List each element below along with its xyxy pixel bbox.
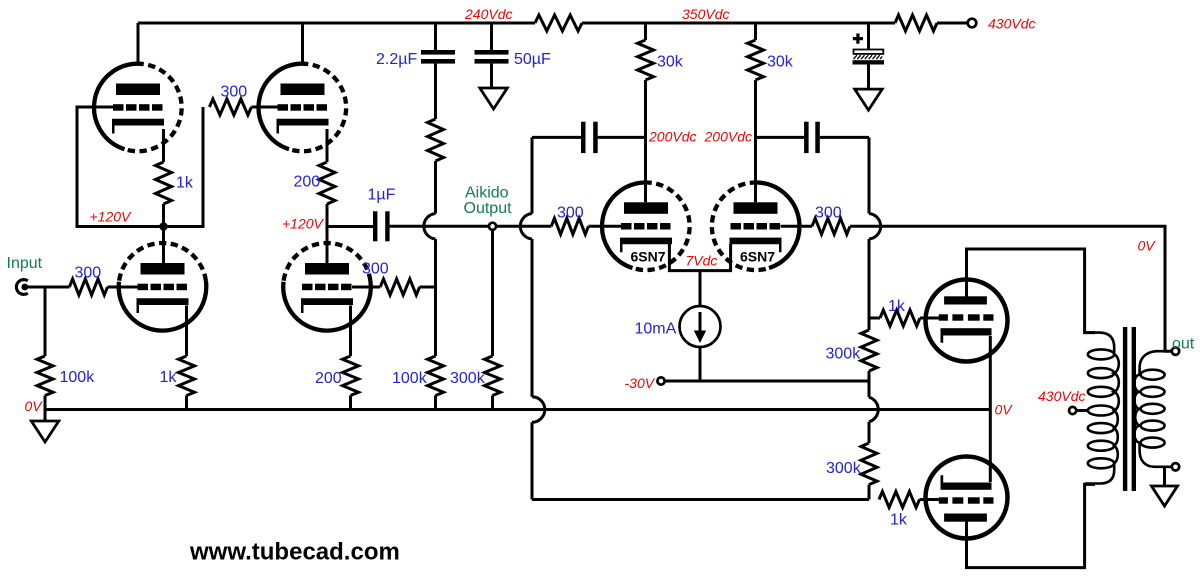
resistor 100k (input) [44, 287, 47, 356]
resistor 1k (lower output grid) [879, 492, 920, 508]
resistor 200 (V2b cathode) [349, 306, 352, 357]
svg-text:1µF: 1µF [368, 187, 396, 204]
vertical wire (left coupling cap) with hops [531, 137, 534, 213]
vertical wire (right coupling cap) with hops [868, 137, 871, 213]
terminal -30V [657, 377, 664, 384]
svg-text:out: out [1172, 336, 1195, 353]
resistor 300 (6SN7 left grid) [551, 218, 588, 234]
triode V2b (2nd bottom) [326, 227, 329, 264]
svg-text:240Vdc: 240Vdc [464, 6, 512, 22]
svg-text:2.2µF: 2.2µF [376, 51, 417, 68]
output triode (upper) [926, 280, 1008, 362]
svg-text:430Vdc: 430Vdc [1038, 388, 1085, 404]
svg-text:300k: 300k [450, 370, 486, 387]
resistor 30k (left) [644, 23, 647, 40]
svg-text:6SN7: 6SN7 [740, 249, 775, 265]
resistor 300k (upper) [868, 318, 871, 330]
capacitor (left 6SN7 plate coupling) [532, 136, 581, 139]
resistor 300 (V1a/V2a grid) [209, 99, 251, 115]
wire 0V feedback line to out [850, 226, 1172, 351]
transformer primary [1085, 333, 1119, 484]
wire V1a grid feedback to +120V node [77, 107, 203, 227]
capacitor 2.2uF [434, 23, 437, 50]
wire -30V line [665, 380, 869, 383]
ground (50uF) [490, 64, 493, 88]
node Aikido Output [489, 223, 496, 230]
svg-text:200: 200 [315, 370, 342, 387]
ground bus 0V [45, 408, 990, 411]
svg-text:Aikido: Aikido [465, 185, 509, 202]
svg-text:6SN7: 6SN7 [631, 249, 666, 265]
svg-text:300: 300 [362, 261, 389, 278]
long wire to lower output grid [532, 498, 869, 501]
svg-text:0V: 0V [1138, 238, 1157, 254]
svg-text:300: 300 [75, 265, 102, 282]
svg-text:50µF: 50µF [514, 51, 551, 68]
ground (input) [44, 410, 47, 422]
svg-text:www.tubecad.com: www.tubecad.com [189, 539, 400, 566]
terminal secondary bottom [1172, 463, 1179, 470]
svg-text:1k: 1k [176, 175, 194, 192]
6SN7 cathodes U wire, node 7Vdc [669, 244, 730, 271]
svg-text:10mA: 10mA [635, 321, 677, 338]
triode U2 6SN7 (right) [757, 183, 799, 269]
svg-text:Output: Output [464, 200, 513, 217]
triode V1a (top-left) [137, 23, 140, 64]
svg-text:30k: 30k [767, 54, 794, 71]
transformer core [1123, 327, 1127, 491]
wire 1uF to Aikido output node [390, 225, 489, 228]
svg-text:+120V: +120V [282, 216, 325, 232]
svg-text:200: 200 [294, 174, 321, 191]
triode V2a (2nd top) [301, 23, 304, 64]
resistor 300k (lower) [868, 422, 871, 443]
resistor 300 (input grid) [69, 279, 107, 295]
top supply rail 240Vdc/350Vdc [138, 22, 968, 25]
svg-text:300: 300 [557, 205, 584, 222]
current source 10mA [680, 306, 721, 347]
svg-text:1k: 1k [888, 298, 906, 315]
svg-text:300: 300 [221, 84, 248, 101]
resistor 1k (V1a cathode) [162, 129, 165, 162]
svg-text:1k: 1k [890, 512, 908, 529]
transformer secondary [1134, 351, 1171, 467]
capacitor 50uF [490, 23, 493, 50]
wire hop (grid chain over 0V bus) [869, 397, 878, 422]
rail resistor (240V-350V) [535, 15, 582, 31]
ground (secondary) [1163, 467, 1166, 486]
svg-text:200Vdc: 200Vdc [704, 129, 752, 145]
svg-text:Input: Input [7, 255, 43, 272]
svg-text:430Vdc: 430Vdc [988, 16, 1035, 32]
svg-text:300k: 300k [826, 346, 862, 363]
wire V1b grid [108, 286, 139, 289]
resistor 1k (upper output grid) [869, 317, 880, 320]
capacitor 1uF [373, 211, 377, 241]
svg-text:100k: 100k [60, 369, 96, 386]
input jack [16, 280, 27, 295]
svg-text:100k: 100k [392, 370, 428, 387]
junction node +120V [159, 222, 168, 231]
resistor 300 (6SN7 right grid) [781, 225, 813, 228]
rail resistor (350V-430V) [895, 15, 937, 31]
terminal 430Vdc (center tap) [1069, 407, 1076, 414]
svg-text:7Vdc: 7Vdc [686, 253, 718, 269]
triode V1b (bottom-left, input) [162, 227, 165, 264]
triode U1 6SN7 (left) [602, 183, 644, 269]
svg-text:-30V: -30V [625, 375, 656, 391]
resistor 200 (V2a cathode) [326, 129, 329, 162]
wire V2b grid to divider [352, 286, 380, 289]
capacitor (right 6SN7 plate coupling) [756, 136, 805, 139]
svg-text:300k: 300k [826, 460, 862, 477]
svg-text:+120V: +120V [90, 209, 133, 225]
resistor 300 (V2b grid) [380, 279, 419, 295]
wire +120V to 1uF [327, 225, 373, 228]
terminal out [1172, 348, 1179, 355]
svg-text:0V: 0V [25, 398, 44, 414]
resistor 100k (divider lower) [428, 356, 444, 396]
svg-text:1k: 1k [160, 369, 178, 386]
resistor 300k (Aikido output to 0V) [491, 230, 494, 356]
svg-text:0V: 0V [995, 401, 1014, 417]
divider resistor (under 2.2uF) [434, 64, 437, 119]
wire upper cathode to 0V [989, 336, 992, 482]
svg-text:200Vdc: 200Vdc [648, 129, 696, 145]
wire hop (divider over signal line) [424, 214, 436, 240]
svg-text:350Vdc: 350Vdc [682, 6, 729, 22]
terminal 430Vdc [968, 19, 977, 28]
resistor 1k (V1b cathode) [185, 306, 188, 357]
svg-text:300: 300 [815, 205, 842, 222]
electrolytic capacitor + [867, 23, 870, 50]
resistor 30k (right) [754, 23, 757, 40]
svg-text:30k: 30k [657, 54, 684, 71]
output triode (lower) [926, 457, 1008, 539]
